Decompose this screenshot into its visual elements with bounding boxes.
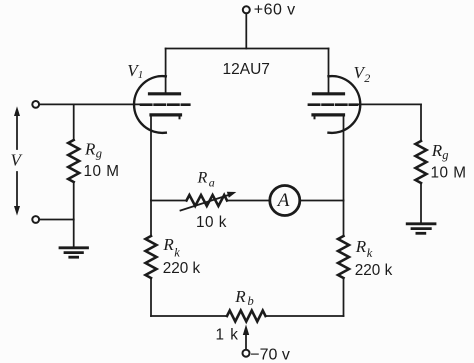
svg-text:+60 v: +60 v xyxy=(254,1,296,18)
svg-text:a: a xyxy=(209,176,215,190)
wire middle left xyxy=(151,200,187,202)
wire input bottom xyxy=(39,219,73,221)
grid V1 (dashed) xyxy=(141,103,189,106)
label Rk left xyxy=(162,235,180,259)
plate V2 xyxy=(314,92,344,95)
wire top rail xyxy=(166,48,329,50)
svg-text:k: k xyxy=(174,246,180,260)
svg-text:A: A xyxy=(276,190,290,211)
envelope V2 xyxy=(329,76,361,133)
label Rg left xyxy=(84,140,102,161)
wire supply drop xyxy=(245,14,247,49)
svg-text:12AU7: 12AU7 xyxy=(223,61,270,78)
ground right xyxy=(407,224,435,234)
ground left xyxy=(60,248,88,257)
wire V2 plate lead xyxy=(328,49,330,94)
label Rg right xyxy=(431,141,449,162)
svg-text:b: b xyxy=(248,294,254,308)
svg-text:10 M: 10 M xyxy=(431,165,467,182)
wire V1 plate lead xyxy=(165,49,167,94)
svg-text:R: R xyxy=(197,170,208,187)
svg-text:V: V xyxy=(11,151,24,170)
svg-text:1 k: 1 k xyxy=(216,327,239,344)
resistor Rg right xyxy=(416,104,427,223)
label Ra xyxy=(197,170,215,190)
cathode V1 xyxy=(151,113,181,116)
svg-text:10 k: 10 k xyxy=(196,214,227,231)
svg-text:220 k: 220 k xyxy=(355,262,393,279)
resistor Rg left xyxy=(68,104,79,219)
terminal +60 v supply xyxy=(243,6,250,13)
svg-text:220 k: 220 k xyxy=(163,260,201,277)
terminal -70 v supply xyxy=(243,350,250,357)
wiper arrow Rb xyxy=(243,325,249,350)
potentiometer Ra xyxy=(181,192,237,211)
wire bottom rail left xyxy=(151,315,227,317)
svg-text:g: g xyxy=(96,147,102,161)
label Rb xyxy=(234,287,253,308)
potentiometer Rb xyxy=(227,311,266,322)
plate V1 xyxy=(150,92,180,95)
wire V1 grid xyxy=(39,103,141,105)
svg-text:2: 2 xyxy=(364,71,370,85)
wire bottom rail right xyxy=(266,315,344,317)
grid V2 (dashed) xyxy=(309,103,357,106)
svg-text:R: R xyxy=(355,237,367,256)
svg-text:k: k xyxy=(367,246,373,260)
ammeter A xyxy=(270,186,300,216)
resistor Rk right xyxy=(338,201,349,317)
voltage arrow V xyxy=(14,106,20,215)
wire ammeter to right xyxy=(300,200,344,202)
wire V2 cathode lead xyxy=(343,115,345,201)
wire Ra to ammeter xyxy=(227,200,270,202)
terminal input top xyxy=(32,101,39,108)
svg-text:g: g xyxy=(442,148,448,162)
envelope V1 xyxy=(134,76,166,133)
svg-text:R: R xyxy=(84,140,96,159)
label V1 xyxy=(127,61,143,81)
svg-text:R: R xyxy=(234,287,246,306)
cathode V2 xyxy=(313,113,344,116)
terminal input bottom xyxy=(32,216,39,223)
wire V1 cathode lead xyxy=(150,115,152,201)
label Rk right xyxy=(355,237,373,260)
wire to ground left xyxy=(73,220,75,248)
resistor Rk left xyxy=(146,201,157,317)
label V2 xyxy=(354,63,371,85)
svg-text:R: R xyxy=(162,235,174,254)
svg-text:1: 1 xyxy=(138,69,144,81)
svg-text:−70 v: −70 v xyxy=(250,346,290,363)
svg-text:R: R xyxy=(431,141,443,160)
svg-text:10 M: 10 M xyxy=(84,163,120,180)
triode V1 xyxy=(134,76,189,133)
triode V2 xyxy=(309,76,360,133)
wire V2 grid xyxy=(358,103,422,105)
